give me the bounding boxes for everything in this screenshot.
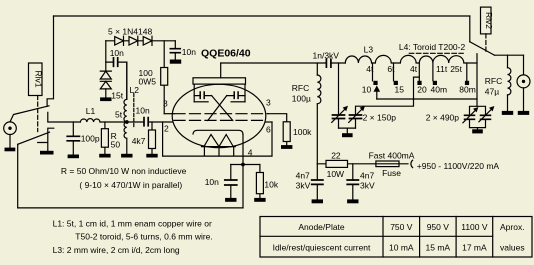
capacitor 10n bias series: [106, 48, 127, 99]
relay switch blade output: [470, 42, 495, 55]
ground 10n cathode: [225, 198, 236, 202]
relay switch blade lower: [18, 132, 50, 144]
svg-text:750 V: 750 V: [390, 222, 413, 232]
svg-text:3: 3: [266, 97, 271, 107]
wire cathode pin 4 down: [242, 134, 244, 208]
inductor RFC 47u: [485, 55, 511, 111]
svg-text:2 × 490p: 2 × 490p: [426, 112, 460, 122]
wire top bypass line: [54, 15, 470, 17]
svg-text:2 × 150p: 2 × 150p: [363, 112, 397, 122]
output connector J2: [517, 55, 530, 111]
plug selector arrow at 10: [374, 85, 381, 99]
svg-text:100µ: 100µ: [292, 94, 311, 104]
tube anode top cap: [193, 63, 246, 102]
svg-text:17 mA: 17 mA: [462, 242, 487, 252]
inductor RFC 100u: [292, 63, 321, 164]
svg-text:10k: 10k: [264, 179, 278, 189]
svg-text:RFC: RFC: [485, 76, 502, 86]
relay coil Rlv2: [481, 7, 495, 52]
svg-text:50: 50: [111, 139, 121, 149]
svg-text:11t: 11t: [436, 64, 448, 74]
ground 4k7: [146, 154, 157, 158]
svg-text:L4: Toroid T200-2: L4: Toroid T200-2: [399, 42, 466, 52]
wire U-link pins 2 and 6: [163, 122, 272, 156]
svg-text:10n: 10n: [205, 177, 219, 187]
svg-text:25t: 25t: [450, 64, 462, 74]
svg-text:10: 10: [362, 85, 372, 95]
wire B+ feed line: [317, 163, 408, 165]
inductor L3: [345, 44, 419, 63]
capacitor 10n screen bypass right: [170, 41, 196, 60]
terminal HV supply: [411, 160, 413, 167]
input connector J1: [4, 122, 17, 148]
tube cross neutralization: [208, 96, 233, 121]
svg-text:Fuse: Fuse: [382, 168, 401, 178]
resistor 4k7: [132, 122, 156, 154]
wire grounded stub at input relay: [38, 128, 54, 151]
svg-text:Fast 400mA: Fast 400mA: [369, 151, 415, 161]
wire pin 6 stub: [265, 121, 272, 123]
svg-text:4n7: 4n7: [296, 170, 310, 180]
capacitor 4n7 3kV left: [296, 164, 323, 200]
svg-text:QQE06/40: QQE06/40: [201, 48, 251, 60]
svg-text:5t: 5t: [115, 110, 123, 120]
svg-text:L1: 5t, 1 cm id, 1 mm enam cop: L1: 5t, 1 cm id, 1 mm enam copper wire o…: [53, 218, 212, 228]
inductor L1: [80, 106, 100, 122]
svg-text:10n: 10n: [110, 48, 124, 58]
tap 20: [418, 63, 420, 81]
svg-text:L3: 2 mm wire, 2 cm i/d, 2cm l: L3: 2 mm wire, 2 cm i/d, 2cm long: [53, 245, 180, 255]
ground R50: [99, 154, 110, 158]
svg-text:+950 - 1100V/220 mA: +950 - 1100V/220 mA: [417, 161, 500, 171]
svg-text:T50-2 toroid, 5-6 turns, 0.6 m: T50-2 toroid, 5-6 turns, 0.6 mm wire.: [75, 232, 212, 242]
svg-text:5 × 1N4148: 5 × 1N4148: [108, 26, 152, 36]
svg-text:15: 15: [395, 85, 405, 95]
svg-text:80m: 80m: [459, 85, 476, 95]
ground L2: [121, 154, 132, 158]
svg-text:6: 6: [266, 124, 271, 134]
svg-text:L3: L3: [364, 44, 374, 54]
resistor 100k: [283, 122, 312, 145]
wire screen stub left: [164, 113, 174, 115]
tap 40m: [432, 63, 434, 81]
svg-text:Idle/rest/quiescent current: Idle/rest/quiescent current: [273, 242, 371, 252]
svg-text:4k7: 4k7: [132, 136, 146, 146]
diodes 5 x 1N4148: [106, 26, 176, 45]
capacitor 1n/3kV: [313, 50, 340, 67]
table voltage/current: [260, 217, 532, 258]
svg-text:Rlv1: Rlv1: [34, 70, 44, 87]
svg-text:15t: 15t: [111, 91, 123, 101]
svg-text:10n: 10n: [182, 47, 196, 57]
svg-text:4: 4: [248, 147, 253, 157]
inductor 15t upper winding: [124, 62, 127, 122]
svg-text:100p: 100p: [81, 134, 100, 144]
svg-text:2: 2: [164, 123, 169, 133]
ground input connector: [5, 148, 16, 152]
svg-text:40m: 40m: [431, 85, 448, 95]
ground 4n7 left: [312, 199, 323, 203]
ground input relay stub: [40, 151, 54, 155]
wire cap to tube pin2: [148, 121, 173, 123]
wire screen stub right to 100k: [268, 114, 287, 122]
svg-text:10 mA: 10 mA: [389, 242, 414, 252]
resistor 22 10W: [326, 151, 348, 179]
ground output connector: [518, 111, 529, 115]
node cathode junction: [241, 163, 245, 167]
wire main grid-line riser: [48, 112, 81, 122]
svg-text:1100 V: 1100 V: [461, 222, 488, 232]
svg-text:0W5: 0W5: [139, 77, 157, 87]
tube grid structure left: [194, 92, 211, 102]
resistor 10k: [256, 165, 278, 198]
wire plate tune feed: [338, 63, 340, 115]
wire bottom rail riser: [17, 144, 19, 208]
svg-text:3kV: 3kV: [360, 181, 375, 191]
capacitor 4n7 3kV right: [347, 164, 375, 200]
inductor 5t lower winding L2: [124, 122, 127, 154]
wire left bypass drop with contact: [47, 16, 53, 106]
wire 20m tap to tune cap: [356, 77, 420, 115]
svg-text:( 9-10 × 470/1W in parallel): ( 9-10 × 470/1W in parallel): [79, 180, 182, 190]
svg-text:10n: 10n: [136, 106, 150, 116]
svg-text:10W: 10W: [327, 169, 344, 179]
tube QQE06/40 envelope: [172, 84, 266, 147]
wire bottom rail: [18, 207, 243, 209]
wire tank output vertical: [476, 54, 478, 107]
tap 80m: [466, 63, 468, 81]
wire band bus: [377, 98, 477, 100]
ground 100k: [281, 145, 292, 149]
svg-text:3kV: 3kV: [296, 181, 311, 191]
ground 4n7 right: [347, 199, 358, 203]
svg-text:Anode/Plate: Anode/Plate: [298, 222, 345, 232]
diode stack bias: [100, 71, 111, 97]
fuse Fast 400mA: [369, 151, 415, 178]
svg-text:L1: L1: [86, 106, 96, 116]
capacitor 100p: [67, 122, 100, 155]
relay switch blade upper (input to bypass): [10, 106, 49, 122]
ground RFC 47u: [502, 111, 513, 115]
svg-text:15 mA: 15 mA: [426, 242, 451, 252]
svg-text:950 V: 950 V: [427, 222, 450, 232]
tap 10: [372, 63, 374, 81]
capacitor 2 x 150p variable: [332, 106, 396, 133]
svg-text:4n7: 4n7: [360, 170, 374, 180]
svg-text:Aprox.: Aprox.: [500, 222, 525, 232]
wire anode supply line: [221, 62, 346, 64]
wire bias node vertical: [105, 41, 107, 71]
svg-text:4t: 4t: [410, 64, 418, 74]
node grid tap junction: [125, 120, 129, 124]
ground 100p: [68, 155, 79, 159]
svg-text:1n/3kV: 1n/3kV: [313, 50, 340, 60]
ground 150p: [342, 133, 353, 137]
wire cathode bias node: [231, 164, 260, 166]
capacitor 2 x 490p variable: [426, 106, 495, 129]
core dashed line L2: [133, 94, 135, 127]
svg-text:RFC: RFC: [292, 83, 309, 93]
svg-text:Rlv2: Rlv2: [484, 12, 494, 29]
svg-text:values: values: [500, 242, 525, 252]
svg-text:47µ: 47µ: [485, 87, 499, 97]
wire L1 to node: [100, 121, 144, 123]
ground diode stack: [100, 97, 111, 101]
tap 15: [393, 63, 395, 81]
relay coil Rlv1: [29, 63, 44, 132]
svg-text:R = 50 Ohm/10 W non inductieve: R = 50 Ohm/10 W non inductieve: [61, 166, 187, 176]
svg-text:20: 20: [417, 85, 427, 95]
wire right bypass drop contact: [469, 16, 471, 42]
capacitor 10n grid series: [136, 106, 150, 126]
inductor L4 toroid: [399, 42, 477, 63]
tube cathode structure: [193, 130, 243, 155]
tube control grid dashed: [174, 119, 266, 121]
svg-text:22: 22: [331, 151, 341, 161]
ground 490p: [472, 129, 483, 133]
tube screen grid dashed: [174, 113, 268, 115]
svg-text:100k: 100k: [293, 127, 312, 137]
capacitor 10n cathode: [205, 165, 237, 198]
resistor 100 0W5 screen: [139, 41, 168, 114]
ground 10n screen: [170, 60, 181, 64]
ground 10k: [254, 198, 265, 202]
wire antenna node: [495, 54, 524, 56]
tube grid structure right: [227, 92, 245, 102]
resistor R 50: [101, 122, 120, 154]
